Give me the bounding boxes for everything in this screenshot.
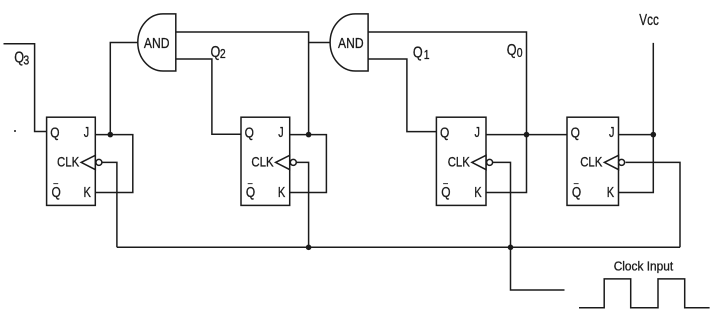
node J0 junction xyxy=(651,132,657,138)
svg-text:Q: Q xyxy=(441,184,450,201)
svg-text:3: 3 xyxy=(23,53,29,67)
flip-flop FF3 (Q1 stage) box xyxy=(436,117,486,205)
svg-text:K: K xyxy=(278,184,285,201)
wire AND2 top input from Q0 xyxy=(368,32,526,135)
svg-text:CLK: CLK xyxy=(580,154,603,170)
wire FF1 CLK to clock bus xyxy=(102,162,117,247)
flip-flop FF3 clock bubble xyxy=(487,159,493,165)
wire AND2 output stub xyxy=(309,42,331,44)
flip-flop FF1 clock triangle xyxy=(81,155,95,169)
AND gate U2 xyxy=(330,14,368,71)
svg-text:K: K xyxy=(607,184,614,201)
svg-text:Q: Q xyxy=(572,184,581,201)
label Q2 xyxy=(211,44,226,61)
wire AND1 top input from AND2 output node xyxy=(176,32,309,135)
svg-text:CLK: CLK xyxy=(448,154,471,170)
flip-flop FF4 clock triangle xyxy=(604,155,618,169)
svg-text:CLK: CLK xyxy=(251,154,274,170)
svg-text:J: J xyxy=(475,124,480,141)
flip-flop FF1 clock bubble xyxy=(96,159,102,165)
wire AND1 output to J1 xyxy=(110,43,138,135)
wire AND1 bottom input from Q2 xyxy=(176,59,241,134)
svg-text:Q: Q xyxy=(413,44,423,61)
label FF3 pin text Q J CLK Qbar K xyxy=(440,124,482,201)
flip-flop FF4 clock bubble xyxy=(619,159,625,165)
wire AND2 bottom input from Q1 xyxy=(368,59,436,132)
wire Vcc to FF4 J and K xyxy=(619,43,654,193)
svg-text:Q: Q xyxy=(507,42,517,59)
wire Q3 output xyxy=(4,44,47,132)
wire FF3 J to FF4 Q (Q0 node) xyxy=(486,134,567,136)
flip-flop FF2 clock bubble xyxy=(290,159,296,165)
svg-text:0: 0 xyxy=(517,46,523,60)
flip-flop FF1 (Q3 stage) box xyxy=(47,117,96,205)
wire FF4 CLK to clock bus xyxy=(626,162,680,247)
wire FF2 J-K feedback loop xyxy=(290,135,327,193)
flip-flop FF2 clock triangle xyxy=(276,155,290,169)
wire clock bus xyxy=(117,246,680,248)
wire clock input feed xyxy=(511,247,565,290)
wire FF3 J-K feedback loop xyxy=(486,135,527,193)
svg-text:2: 2 xyxy=(220,47,226,61)
flip-flop FF2 (Q2 stage) box xyxy=(241,117,290,205)
node FF3 clock bus junction xyxy=(508,245,514,251)
svg-text:J: J xyxy=(84,124,89,141)
node Q0 junction xyxy=(524,132,530,138)
svg-text:Q: Q xyxy=(50,124,59,141)
wire FF1 J-K feedback loop xyxy=(95,135,133,193)
svg-text:K: K xyxy=(474,184,481,201)
svg-text:Q: Q xyxy=(440,124,449,141)
label Q3 xyxy=(14,50,29,68)
svg-text:1: 1 xyxy=(424,48,430,62)
svg-text:Q: Q xyxy=(52,184,61,201)
svg-text:Vcc: Vcc xyxy=(639,12,659,29)
svg-text:J: J xyxy=(278,124,283,141)
node J2 junction xyxy=(306,132,312,138)
svg-text:Clock Input: Clock Input xyxy=(614,259,674,274)
label Q1 xyxy=(413,44,430,62)
svg-text:Q: Q xyxy=(571,124,580,141)
flip-flop FF4 (Q0 stage) box xyxy=(567,117,619,205)
wire FF4 J to Vcc line xyxy=(619,134,654,136)
wire FF2 CLK to clock bus xyxy=(297,162,309,247)
AND gate U1 xyxy=(138,14,176,71)
svg-text:CLK: CLK xyxy=(57,154,80,170)
flip-flop FF3 clock triangle xyxy=(472,155,486,169)
label Q0 xyxy=(507,42,523,60)
label FF2 pin text Q J CLK Qbar K xyxy=(245,124,286,201)
svg-text:K: K xyxy=(84,184,91,201)
svg-text:AND: AND xyxy=(338,36,364,52)
node J1 junction xyxy=(108,132,114,138)
node stray dot xyxy=(14,130,16,132)
svg-text:J: J xyxy=(609,124,614,141)
svg-text:Q: Q xyxy=(245,124,254,141)
svg-text:AND: AND xyxy=(144,36,170,52)
label FF4 pin text Q J CLK Qbar K xyxy=(571,124,615,201)
node FF2 clock bus junction xyxy=(306,245,312,251)
svg-text:Q: Q xyxy=(246,184,255,201)
wire FF3 CLK to clock bus xyxy=(493,162,511,247)
svg-text:Q: Q xyxy=(211,44,221,61)
clock waveform xyxy=(579,279,710,308)
label FF1 pin text Q J CLK Qbar K xyxy=(50,124,91,201)
